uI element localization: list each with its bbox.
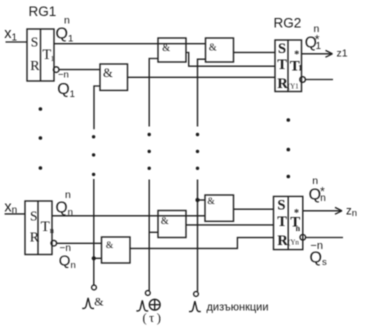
svg-text:T: T (277, 57, 287, 73)
svg-text:R: R (277, 233, 288, 249)
svg-text:(Yn: (Yn (288, 239, 299, 247)
svg-text:S: S (277, 198, 285, 214)
svg-text:n: n (296, 224, 301, 233)
svg-text:Qs: Qs (310, 250, 327, 268)
svg-text:T: T (277, 214, 287, 230)
svg-text:n: n (320, 193, 326, 204)
svg-text:1: 1 (298, 64, 302, 73)
svg-text:S: S (278, 41, 286, 57)
svg-text:n: n (312, 175, 318, 187)
svg-text:&: & (103, 66, 113, 80)
svg-text:xn: xn (4, 199, 17, 216)
svg-text:Qn: Qn (59, 252, 76, 271)
svg-text:Qn: Qn (56, 199, 73, 218)
svg-text:&: & (207, 197, 215, 207)
svg-text:−n: −n (58, 69, 69, 80)
svg-text:(Y1: (Y1 (288, 82, 299, 90)
svg-text:Q1: Q1 (57, 81, 75, 100)
svg-text:zn: zn (346, 205, 357, 219)
svg-text:дизъюнкции: дизъюнкции (207, 302, 269, 314)
svg-text:n: n (65, 189, 71, 201)
svg-text:RG2: RG2 (274, 16, 302, 31)
svg-text:&: & (94, 294, 104, 308)
svg-text:( τ ): ( τ ) (143, 311, 161, 325)
svg-text:RG1: RG1 (29, 4, 57, 19)
svg-text:S: S (30, 208, 38, 223)
svg-text:x1: x1 (4, 26, 17, 43)
svg-text:n: n (64, 15, 70, 27)
svg-text:1: 1 (51, 54, 55, 63)
svg-text:&: & (106, 241, 114, 251)
svg-text:R: R (277, 76, 288, 92)
svg-text:1: 1 (316, 41, 322, 52)
svg-text:Q1: Q1 (56, 26, 74, 45)
svg-text:z1: z1 (337, 48, 348, 60)
svg-text:S: S (31, 35, 39, 50)
svg-text:&: & (162, 43, 170, 54)
svg-text:R: R (30, 59, 40, 74)
svg-text:&: & (161, 216, 169, 227)
svg-text:&: & (209, 42, 217, 53)
svg-text:R: R (30, 230, 40, 245)
